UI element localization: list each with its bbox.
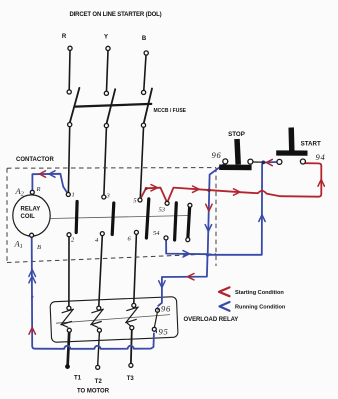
svg-text:START: START (301, 141, 321, 148)
svg-text:B: B (142, 36, 147, 42)
svg-text:Starting Condition: Starting Condition (235, 290, 284, 296)
svg-text:TO MOTOR: TO MOTOR (77, 389, 110, 395)
svg-text:STOP: STOP (228, 131, 245, 138)
svg-text:2: 2 (71, 237, 75, 244)
svg-text:96: 96 (161, 304, 171, 314)
svg-text:53: 53 (159, 207, 166, 214)
svg-text:54: 54 (153, 230, 160, 237)
svg-text:Y: Y (104, 35, 108, 41)
svg-text:T2: T2 (95, 379, 103, 385)
svg-text:R: R (62, 34, 67, 40)
svg-text:A1: A1 (14, 239, 23, 251)
svg-text:RELAY: RELAY (21, 207, 41, 213)
svg-text:T1: T1 (74, 376, 82, 382)
svg-text:R: R (36, 186, 41, 193)
svg-text:CONTACTOR: CONTACTOR (16, 157, 54, 163)
svg-text:T3: T3 (127, 376, 135, 382)
svg-text:4: 4 (95, 237, 99, 244)
svg-text:Running Condition: Running Condition (235, 304, 286, 310)
svg-text:A2: A2 (15, 186, 24, 198)
svg-text:MCCB / FUSE: MCCB / FUSE (154, 108, 187, 114)
svg-text:5: 5 (133, 198, 137, 205)
svg-text:94: 94 (316, 152, 326, 162)
svg-text:95: 95 (159, 327, 169, 337)
svg-text:6: 6 (128, 236, 132, 243)
svg-text:1: 1 (72, 192, 75, 199)
svg-text:96: 96 (212, 150, 222, 160)
svg-text:3: 3 (106, 193, 111, 200)
svg-text:OVERLOAD RELAY: OVERLOAD RELAY (184, 317, 239, 323)
svg-text:COIL: COIL (21, 214, 36, 220)
svg-text:DIRCET ON LINE STARTER (DOL): DIRCET ON LINE STARTER (DOL) (69, 12, 161, 18)
svg-text:B: B (37, 244, 41, 251)
